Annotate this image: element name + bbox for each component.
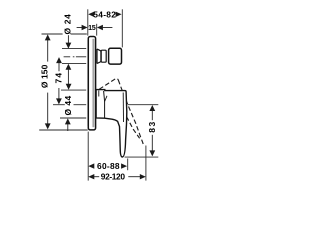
- hub cone far-side edge: [105, 96, 107, 102]
- svg-text:54-82: 54-82: [93, 9, 116, 19]
- lever handle, open position (dashed outline): [99, 79, 143, 146]
- svg-text:Ø 44: Ø 44: [63, 95, 73, 115]
- hub top extension line: [61, 89, 86, 91]
- dimension Ø44: [65, 84, 72, 131]
- knob head (front face at 54-82 from wall): [109, 48, 122, 64]
- dimension 83: [149, 105, 155, 156]
- hub inner vertical edge: [98, 91, 100, 97]
- svg-text:Ø 24: Ø 24: [63, 14, 73, 35]
- dimension Ø24: [66, 35, 72, 84]
- dimension 15: [77, 25, 113, 30]
- svg-text:60-88: 60-88: [97, 161, 120, 171]
- extension lines: [39, 9, 158, 180]
- lever pivot axis line (left): [53, 104, 65, 106]
- lever tip extension: [127, 159, 129, 171]
- open lever tip extension: [145, 146, 147, 181]
- svg-text:74: 74: [54, 73, 64, 84]
- dashed grip front edge: [118, 80, 143, 145]
- plate top extension line: [42, 33, 63, 35]
- svg-text:83: 83: [147, 122, 157, 133]
- hub bottom extension line: [60, 117, 86, 119]
- wall plane extension (top): [87, 9, 89, 35]
- knob axis centerline: [64, 56, 71, 58]
- knob top extension line: [62, 47, 86, 49]
- lever pivot axis line (right): [128, 104, 159, 106]
- lever handle hub + grip (solid, closed position): [96, 90, 127, 157]
- dimension 60-88: [88, 163, 127, 168]
- shut-off knob sleeve (cone): [97, 49, 101, 63]
- dimension 92-120: [88, 174, 146, 179]
- dimension 54-82: [88, 12, 121, 17]
- plate bottom extension line: [39, 129, 87, 131]
- svg-text:15: 15: [88, 23, 96, 32]
- dimension 74: [56, 57, 62, 104]
- escutcheon plate (side view, Ø150): [88, 37, 96, 130]
- knob face extension: [121, 9, 123, 47]
- lever bend crease: [122, 93, 124, 123]
- plate front extension: [96, 24, 98, 36]
- knob neck: [101, 50, 106, 62]
- svg-text:Ø 150: Ø 150: [39, 64, 49, 88]
- hub cone slant edge: [104, 91, 105, 118]
- dashed arm top edge: [99, 79, 118, 90]
- svg-text:92-120: 92-120: [101, 172, 126, 182]
- lever tip level line: [125, 156, 159, 158]
- wall plane extension (bottom): [87, 132, 89, 181]
- dashed grip back edge: [104, 109, 139, 139]
- dimension Ø150: [45, 34, 51, 129]
- knob bottom extension line: [62, 62, 86, 64]
